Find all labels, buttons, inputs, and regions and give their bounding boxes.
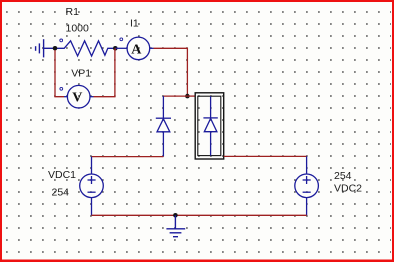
pin marker resistor pin 1 [60,39,63,42]
resistor R1 [55,41,115,56]
wire: VP1 left branch [55,50,64,97]
svg-text:254: 254 [334,170,352,182]
node: ground junction dot [173,213,178,218]
wire: VDC1 top to diode D1 anode [92,156,164,158]
svg-text:VP1: VP1 [71,68,91,80]
source VDC2 [295,156,319,215]
svg-text:I1: I1 [130,18,139,30]
svg-text:VDC2: VDC2 [334,183,362,195]
ammeter I1 [115,37,153,60]
wire: node to left diode cathode [163,95,187,97]
wire: VP1 right branch up to node [94,48,116,96]
ground (bottom) [166,215,185,236]
node: junction dot at R1 right / ammeter / VP1 [113,46,118,51]
svg-text:VDC1: VDC1 [48,169,76,181]
wire: boxed diode to VDC2 top [224,155,307,157]
svg-text:R1: R1 [66,6,80,18]
diode D2 symbol (cathode up) [203,96,217,155]
node: center junction dot [185,94,190,99]
boxed diode D2 (outer rect) [195,93,224,159]
pin marker voltmeter pin 1 [60,87,63,90]
pin marker ammeter pin 1 [120,38,123,41]
source VDC1 [80,157,104,216]
diode D1 (left, cathode up) [156,96,171,157]
ground (input, rotated left) [36,39,55,57]
voltmeter VP1 [64,85,94,108]
wire: ammeter output to center node [154,48,188,96]
wire: bottom bus [92,214,307,216]
wire: node to boxed diode [187,95,195,97]
node: junction dot at R1 left / VP1 / ground [53,46,58,51]
svg-text:1000: 1000 [66,22,90,34]
svg-text:V: V [72,91,82,106]
boxed diode D2 (inner rect) [198,96,221,155]
svg-text:A: A [131,42,142,57]
svg-text:254: 254 [52,186,70,198]
